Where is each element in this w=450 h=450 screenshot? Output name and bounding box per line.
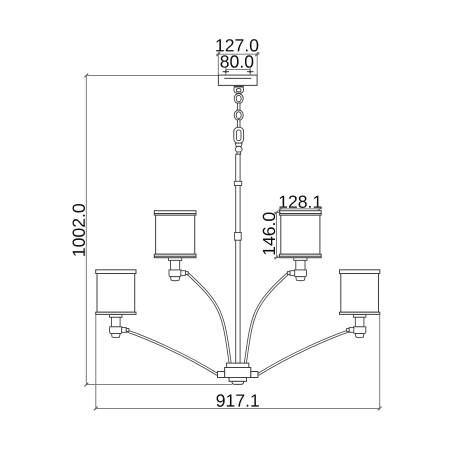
dim lines 127.0: [216, 52, 260, 75]
socket inner-left: [169, 258, 189, 281]
dim text 80.0: [221, 55, 254, 68]
chain side link a: [237, 103, 240, 111]
hub step: [229, 378, 246, 382]
shade outer-right: [340, 270, 380, 315]
socket outer-left: [110, 314, 129, 337]
shade inner-left: [154, 211, 196, 258]
dim arrow diamonds 80.0: [224, 70, 252, 73]
dim text 127.0: [216, 39, 258, 52]
canopy: [218, 75, 257, 85]
chain link 3 (tall): [234, 127, 244, 143]
hub left tab: [218, 372, 225, 378]
arm outer-right: [258, 331, 350, 375]
shade inner-right: [280, 211, 322, 258]
dim lines 80.0: [226, 68, 250, 79]
socket inner-right: [287, 258, 307, 281]
dim text 1002.0 (rotated): [73, 204, 86, 256]
chain shackle: [234, 87, 244, 93]
hub body: [225, 368, 251, 378]
dim ticks 146.0: [275, 211, 279, 260]
dim lines 146.0: [274, 212, 281, 257]
chain link 1: [234, 94, 243, 104]
arm outer-left: [126, 331, 218, 375]
socket outer-right: [347, 314, 366, 337]
arm inner-left: [187, 273, 231, 364]
dim lines 128.1: [279, 208, 323, 210]
dim 146.0 extension overlays: [274, 212, 281, 257]
rod flare: [237, 152, 241, 154]
dim lines 917.1: [96, 315, 380, 410]
chain collar: [235, 143, 242, 146]
dim ticks 128.1: [279, 207, 322, 211]
dim lines 1002.0: [86, 75, 232, 384]
hub finial: [232, 381, 243, 384]
chain side link b: [237, 120, 240, 128]
dim ticks 1002.0: [84, 74, 88, 387]
dim text 146.0 (rotated): [263, 212, 276, 254]
rod: [236, 154, 240, 363]
hub top plate: [227, 363, 249, 367]
shade outer-left: [96, 270, 136, 315]
dim arrow bars 80.0: [223, 71, 254, 73]
dim text 917.1: [217, 394, 259, 407]
chain knob: [235, 146, 242, 152]
dim ticks 127.0: [216, 52, 259, 56]
hub right tab: [251, 372, 258, 378]
dim ticks 917.1: [94, 407, 382, 411]
rod coupling: [235, 233, 242, 241]
dim text 128.1: [279, 196, 321, 209]
rod collar: [234, 181, 241, 185]
canopy connector bar: [234, 86, 244, 88]
arm inner-right: [245, 273, 289, 364]
chain link 2: [234, 110, 243, 120]
